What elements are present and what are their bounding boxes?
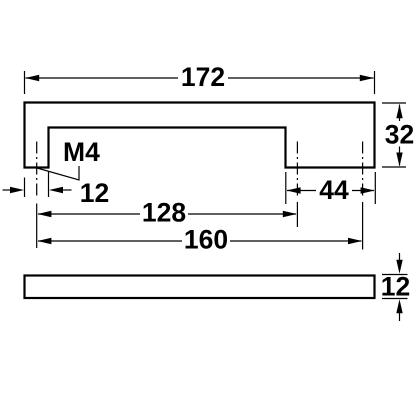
right foot right hole centerline	[362, 142, 364, 250]
dimension 32 line with arrows	[396, 104, 402, 166]
dimension 128 line with arrows	[37, 211, 296, 217]
dimension 12 outside arrows (side view)	[396, 253, 402, 321]
dimension 44 line with arrows	[287, 187, 375, 193]
dimension 44 extension lines	[286, 172, 376, 204]
handle front view outline	[25, 103, 375, 168]
svg-text:32: 32	[385, 120, 414, 150]
left hole centerline	[36, 142, 38, 249]
svg-text:12: 12	[381, 272, 410, 302]
handle side view outline	[25, 276, 375, 299]
svg-text:44: 44	[319, 175, 349, 205]
svg-text:160: 160	[184, 225, 228, 255]
dimension 172 extension lines	[25, 71, 375, 94]
dimension 12 extension lines (left foot)	[25, 172, 49, 198]
dimension 160 line with arrows	[37, 238, 362, 244]
svg-text:172: 172	[181, 62, 225, 92]
dimension 172 line with arrows	[25, 75, 374, 81]
dimension 12 extension lines (side view)	[382, 275, 408, 299]
svg-text:M4: M4	[63, 137, 100, 167]
dimension 12 outside arrows (left foot)	[3, 187, 72, 193]
right foot left hole centerline	[296, 142, 298, 228]
M4 leader line	[37, 166, 79, 180]
svg-text:12: 12	[80, 178, 109, 208]
svg-text:128: 128	[142, 198, 186, 228]
dimension 32 extension lines	[382, 103, 406, 167]
